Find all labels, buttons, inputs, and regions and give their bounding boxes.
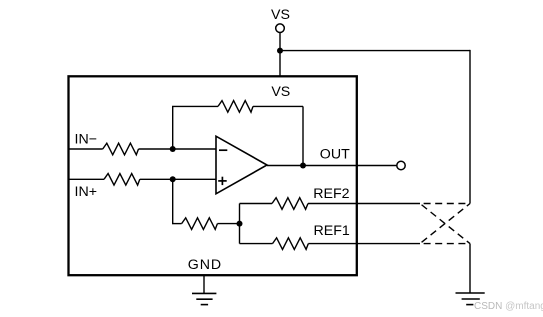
label GND xyxy=(188,257,222,273)
watermark xyxy=(474,301,543,312)
resistor R3 (feedback) xyxy=(218,101,253,113)
wire gain left segment xyxy=(172,223,182,225)
wire IN- input segment xyxy=(69,148,103,150)
wire VS to right rail xyxy=(280,50,470,52)
dashed crossover REF2 straight xyxy=(420,203,470,205)
label VS (top terminal) xyxy=(271,7,290,23)
wire IN+ to op-amp plus xyxy=(140,178,216,180)
wire output xyxy=(267,165,397,167)
wire REF2 left segment xyxy=(240,203,273,205)
svg-text:REF2: REF2 xyxy=(313,186,349,202)
resistor R6 (REF1) xyxy=(273,238,309,250)
resistor R4 (gain) xyxy=(182,218,218,230)
wire VS stem xyxy=(279,33,281,77)
wire REF1 left segment xyxy=(240,243,273,245)
label REF1 xyxy=(314,223,350,239)
wire feedback left vertical xyxy=(172,106,174,149)
resistor R2 (IN+ input) xyxy=(104,174,140,186)
wire GND stem xyxy=(203,275,205,293)
terminal OUT (open circle) xyxy=(397,161,405,169)
junction IN- / feedback node xyxy=(170,146,176,152)
label IN- xyxy=(75,131,97,147)
wire feedback top left segment xyxy=(172,105,218,107)
dashed crossover REF2 to lower diagonal xyxy=(420,204,470,244)
junction ref divider node xyxy=(237,221,243,227)
svg-text:GND: GND xyxy=(188,257,222,273)
wire IN+ input segment xyxy=(69,178,105,180)
amplifier box U1 xyxy=(69,76,357,275)
dashed crossover REF1 to upper diagonal xyxy=(420,204,470,244)
junction IN+ / gain node xyxy=(170,176,176,182)
svg-text:REF1: REF1 xyxy=(314,223,350,239)
ground (right rail) xyxy=(456,293,485,305)
wire right rail upper xyxy=(469,50,471,204)
wire ref branch vertical xyxy=(239,204,241,244)
wire gain to ref node xyxy=(217,223,239,225)
svg-text:IN−: IN− xyxy=(75,131,97,147)
label VS (internal pin) xyxy=(271,84,290,100)
wire feedback top right segment xyxy=(253,105,303,107)
junction VS node xyxy=(277,48,283,54)
wire right rail lower xyxy=(469,244,471,293)
wire REF2 to crossover xyxy=(308,203,420,205)
wire IN- to op-amp minus xyxy=(139,148,217,150)
svg-text:OUT: OUT xyxy=(320,147,350,163)
junction output / feedback xyxy=(300,163,306,169)
resistor R5 (REF2) xyxy=(272,198,308,210)
terminal VS (open circle) xyxy=(276,24,285,33)
dashed crossover REF1 straight xyxy=(420,243,470,245)
label IN+ xyxy=(75,184,97,200)
svg-text:VS: VS xyxy=(271,7,290,23)
wire REF1 to crossover xyxy=(308,243,420,245)
op-amp A1 xyxy=(216,136,267,194)
svg-text:VS: VS xyxy=(271,84,290,100)
wire IN+ node down vertical xyxy=(172,179,174,223)
label OUT xyxy=(320,147,350,163)
wire feedback right vertical xyxy=(302,106,304,165)
svg-text:IN+: IN+ xyxy=(75,184,97,200)
svg-text:CSDN @mftang: CSDN @mftang xyxy=(474,301,543,312)
ground (GND pin) xyxy=(192,293,216,304)
label REF2 xyxy=(313,186,349,202)
resistor R1 (IN- input) xyxy=(103,143,139,155)
